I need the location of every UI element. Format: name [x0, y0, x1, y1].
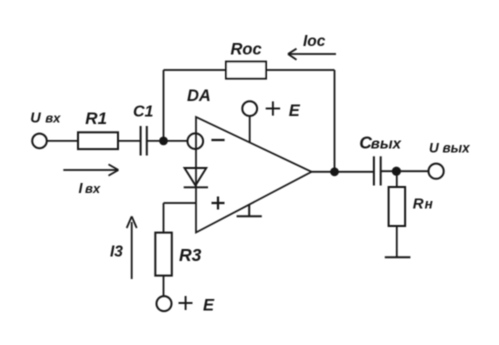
power pin +E of op-amp [242, 101, 257, 142]
terminal U_vyx output circle [429, 164, 444, 179]
svg-text:R3: R3 [179, 245, 202, 265]
wire feedback top horizontal [164, 69, 335, 71]
wire R3 to +E terminal [163, 276, 165, 297]
capacitor Cvyx [374, 156, 381, 185]
resistor Rn load [389, 187, 406, 226]
diode VD between inputs [184, 168, 208, 187]
capacitor C1 [141, 126, 147, 156]
wire noninverting input horizontal [164, 202, 197, 204]
svg-text:Roc: Roc [231, 41, 262, 59]
current arrow Ioc [288, 49, 336, 60]
svg-text:U: U [30, 111, 41, 127]
svg-text:I: I [79, 181, 84, 197]
op-amp inverting input pin circle [188, 133, 204, 149]
node after Cvyx junction dot [392, 167, 401, 176]
label Ioc [303, 33, 326, 50]
svg-text:I3: I3 [110, 244, 123, 261]
current arrow Ivx [63, 164, 118, 175]
svg-text:вых: вых [443, 141, 471, 156]
plus sign noninverting input [212, 197, 225, 210]
label +E bottom [179, 296, 193, 310]
label Rn [413, 196, 433, 213]
ground load [385, 256, 411, 258]
svg-text:вх: вх [85, 181, 101, 196]
svg-text:R1: R1 [85, 109, 107, 128]
label U vyx [429, 141, 470, 156]
wire input to R1 [47, 140, 78, 142]
terminal +E bottom circle [157, 296, 172, 311]
node A junction dot [159, 137, 168, 146]
node output junction dot [330, 167, 339, 176]
wire down to R3 [163, 203, 165, 233]
terminal U_vx input circle [32, 134, 47, 149]
label R3 [179, 245, 202, 265]
svg-text:E: E [289, 102, 301, 120]
svg-text:U: U [429, 141, 440, 156]
ground common pin of op-amp [237, 204, 262, 216]
label C1 [133, 104, 154, 121]
svg-text:Ioc: Ioc [303, 33, 326, 50]
wire C1 to inverting input [147, 140, 188, 142]
label U vx [30, 111, 61, 127]
label Cvyx [359, 133, 401, 153]
resistor R1 [78, 132, 118, 149]
svg-text:C1: C1 [133, 104, 154, 121]
wire Cvyx to output terminal [381, 170, 429, 172]
wire op-amp output [312, 171, 374, 173]
op-amp DA triangle [196, 117, 312, 233]
svg-text:вх: вх [45, 111, 61, 126]
svg-text:DA: DA [187, 87, 211, 105]
svg-text:вых: вых [371, 136, 402, 153]
resistor R3 [155, 233, 172, 276]
svg-text:R: R [413, 196, 424, 213]
wire Rn to ground [396, 226, 398, 257]
svg-text:E: E [203, 297, 215, 315]
resistor Roc [226, 62, 266, 79]
label I3 [110, 244, 123, 261]
wire feedback left vertical [163, 70, 165, 141]
label DA [187, 87, 211, 105]
label Ivx [79, 181, 101, 197]
label Roc [231, 41, 262, 59]
label R1 [85, 109, 107, 128]
svg-text:н: н [425, 197, 433, 212]
wire feedback right vertical [334, 70, 336, 172]
wire node to Rn [396, 171, 398, 187]
minus sign inverting input [211, 139, 224, 141]
label +E top [266, 101, 280, 115]
current arrow I3 [127, 216, 137, 279]
wire R1 to C1 [118, 140, 140, 142]
